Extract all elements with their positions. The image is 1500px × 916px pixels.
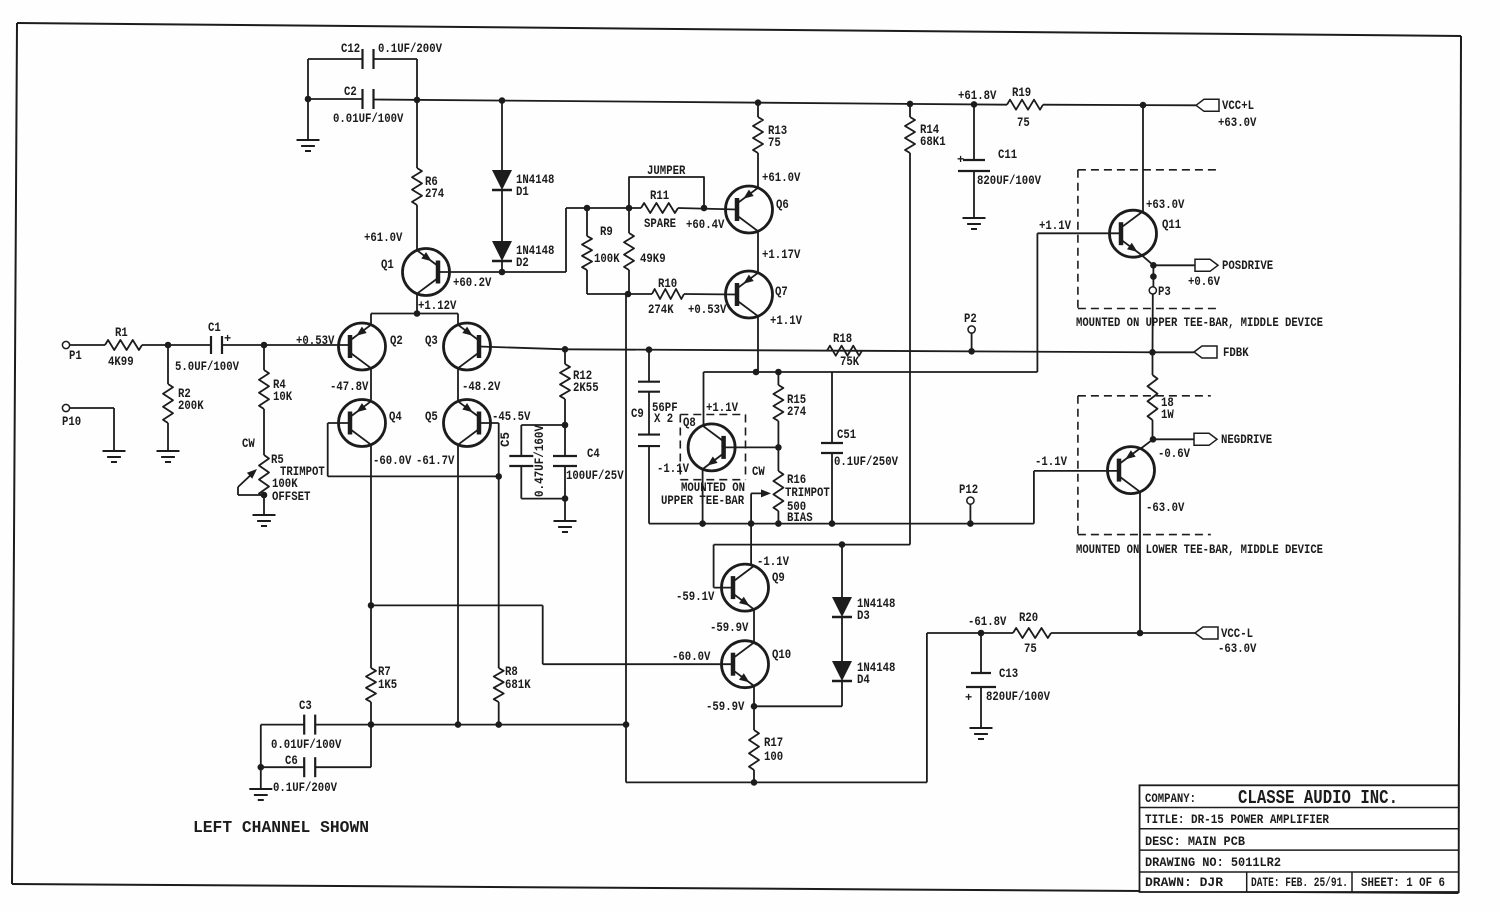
- svg-text:0.1UF/250V: 0.1UF/250V: [834, 455, 898, 469]
- dashed box lower: [1078, 396, 1211, 535]
- port P12: [959, 483, 978, 524]
- svg-text:CLASSE AUDIO INC.: CLASSE AUDIO INC.: [1238, 787, 1398, 809]
- svg-text:75: 75: [768, 136, 781, 150]
- wire lower collector: [1137, 492, 1144, 637]
- wire Q3 base to fdbk: [479, 347, 565, 350]
- svg-text:R19: R19: [1012, 86, 1031, 100]
- svg-text:-0.6V: -0.6V: [1158, 447, 1190, 461]
- svg-text:200K: 200K: [178, 399, 204, 413]
- svg-text:DRAWING NO: 5011LR2: DRAWING NO: 5011LR2: [1145, 856, 1281, 870]
- text mounted lower: [1076, 543, 1323, 557]
- svg-text:-59.1V: -59.1V: [676, 590, 715, 604]
- svg-text:Q1: Q1: [381, 258, 394, 272]
- wire D2 bottom: [501, 262, 503, 272]
- wire C5 bottom: [521, 495, 568, 502]
- svg-text:0.01UF/100V: 0.01UF/100V: [271, 738, 342, 752]
- wire bottom step: [625, 294, 627, 782]
- svg-text:CW: CW: [242, 437, 255, 451]
- svg-text:-60.0V: -60.0V: [373, 454, 412, 468]
- svg-text:+: +: [224, 332, 231, 346]
- svg-text:Q10: Q10: [772, 648, 791, 662]
- svg-text:P2: P2: [964, 312, 977, 326]
- svg-text:C3: C3: [299, 699, 312, 713]
- wire top rail: [374, 97, 1007, 108]
- capacitor C51: [821, 372, 898, 524]
- svg-text:-45.5V: -45.5V: [492, 410, 531, 424]
- svg-text:TRIMPOT: TRIMPOT: [785, 486, 830, 500]
- capacitor C2: [333, 85, 404, 126]
- wire C12 right: [374, 59, 417, 100]
- svg-text:C51: C51: [837, 428, 856, 442]
- wire D4 bottom: [754, 681, 842, 706]
- svg-text:R18: R18: [833, 332, 852, 346]
- wire C12 left: [308, 59, 362, 99]
- transistor Q7: [726, 271, 788, 318]
- resistor R7: [366, 605, 397, 724]
- svg-text:Q7: Q7: [775, 285, 788, 299]
- svg-text:274: 274: [425, 187, 445, 201]
- capacitor C4: [553, 425, 624, 499]
- svg-text:75K: 75K: [840, 355, 860, 369]
- title title: [1145, 813, 1329, 827]
- port VCC-L: [1195, 627, 1257, 656]
- wire C2 right to rail: [0, 0, 1, 1]
- wire D1-D2: [501, 191, 503, 241]
- svg-text:-48.2V: -48.2V: [462, 380, 501, 394]
- svg-text:DRAWN: DJR: DRAWN: DJR: [1145, 876, 1224, 890]
- transistor Q1: [381, 249, 450, 296]
- diode D3: [832, 597, 895, 623]
- svg-text:P1: P1: [69, 349, 82, 363]
- svg-text:P10: P10: [62, 415, 81, 429]
- svg-text:UPPER TEE-BAR: UPPER TEE-BAR: [661, 494, 745, 508]
- svg-text:-61.7V: -61.7V: [416, 454, 455, 468]
- svg-text:+63.0V: +63.0V: [1146, 198, 1185, 212]
- port P10: [62, 404, 81, 429]
- wire R10 to Q7: [684, 293, 737, 296]
- wire Q9 collector: [751, 524, 789, 569]
- svg-text:MOUNTED ON: MOUNTED ON: [681, 481, 745, 495]
- ground C4: [554, 499, 577, 532]
- title sheet: [1361, 876, 1445, 890]
- svg-text:+61.0V: +61.0V: [762, 171, 801, 185]
- wire R13 to Q6: [758, 153, 801, 188]
- svg-text:49K9: 49K9: [640, 252, 666, 266]
- capacitor C3: [271, 699, 342, 752]
- wire P1 to R1: [70, 344, 105, 346]
- wire R9 ends: [587, 208, 631, 297]
- svg-text:68K1: 68K1: [920, 135, 946, 149]
- wire C2 left: [305, 96, 362, 103]
- wire -1.1V node: [649, 520, 1034, 527]
- svg-text:+1.1V: +1.1V: [1039, 219, 1071, 233]
- svg-text:NEGDRIVE: NEGDRIVE: [1221, 433, 1272, 447]
- svg-text:Q8: Q8: [683, 416, 696, 430]
- wire Q2 collector: [330, 368, 371, 400]
- svg-text:274: 274: [787, 405, 807, 419]
- svg-text:+0.53V: +0.53V: [296, 334, 335, 348]
- wire emitters join: [371, 313, 458, 315]
- text mounted upper: [1076, 316, 1323, 330]
- svg-text:-59.9V: -59.9V: [710, 621, 749, 635]
- svg-text:P3: P3: [1158, 285, 1171, 299]
- capacitor C1: [175, 321, 239, 374]
- svg-text:-60.0V: -60.0V: [672, 650, 711, 664]
- svg-text:-1.1V: -1.1V: [657, 462, 689, 476]
- wire R1 to C1: [142, 342, 212, 349]
- svg-text:820UF/100V: 820UF/100V: [977, 174, 1041, 188]
- wire Q4 base: [328, 423, 499, 476]
- capacitor C9 upper: [638, 350, 660, 392]
- resistor R12: [560, 349, 599, 425]
- capacitor C12: [341, 42, 442, 69]
- svg-text:OFFSET: OFFSET: [272, 490, 311, 504]
- transistor Q10: [722, 641, 792, 688]
- svg-text:R7: R7: [378, 665, 391, 679]
- diode D4: [832, 661, 895, 687]
- wire Q11 emitter ext: [1142, 255, 1157, 268]
- svg-text:MOUNTED ON LOWER TEE-BAR, MIDD: MOUNTED ON LOWER TEE-BAR, MIDDLE DEVICE: [1076, 543, 1323, 557]
- wire Q8 emitter: [657, 462, 703, 524]
- resistor R10: [628, 277, 727, 317]
- wire R11 to Q6: [678, 205, 737, 232]
- wire R19 to VCC+L: [1043, 102, 1196, 109]
- svg-text:D4: D4: [857, 673, 870, 687]
- port VCC+L: [1196, 99, 1257, 130]
- svg-text:D1: D1: [516, 185, 529, 199]
- wire D1 top: [501, 101, 503, 170]
- svg-text:SPARE: SPARE: [644, 217, 676, 231]
- wire R6 to Q1: [364, 205, 417, 250]
- svg-text:+60.4V: +60.4V: [686, 218, 725, 232]
- wire P3 to fdbk: [1152, 294, 1154, 352]
- wire posdrive: [1153, 264, 1195, 266]
- svg-text:-63.0V: -63.0V: [1146, 501, 1185, 515]
- trimpot R16: [752, 447, 830, 525]
- svg-text:+1.1V: +1.1V: [770, 314, 802, 328]
- svg-text:R11: R11: [650, 189, 669, 203]
- svg-text:FDBK: FDBK: [1223, 346, 1249, 360]
- svg-text:SHEET: 1 OF 6: SHEET: 1 OF 6: [1361, 876, 1445, 890]
- wire Q10 emitter: [706, 686, 757, 714]
- svg-text:+0.53V: +0.53V: [688, 303, 727, 317]
- wire Q1 collector: [414, 294, 457, 317]
- svg-text:5.0UF/100V: 5.0UF/100V: [175, 360, 239, 374]
- svg-text:C12: C12: [341, 42, 360, 56]
- svg-text:C11: C11: [998, 148, 1017, 162]
- transistor Q8: [683, 416, 735, 471]
- svg-text:+: +: [957, 153, 964, 167]
- svg-text:Q2: Q2: [390, 334, 403, 348]
- svg-text:C2: C2: [344, 85, 357, 99]
- wire Q11 collector: [1143, 105, 1185, 212]
- wire Q7 emitter: [758, 314, 802, 372]
- svg-text:C4: C4: [587, 447, 600, 461]
- wire Q4 collector: [368, 445, 455, 609]
- svg-text:DESC: MAIN PCB: DESC: MAIN PCB: [1145, 835, 1245, 849]
- svg-text:Q5: Q5: [425, 410, 438, 424]
- transistor Q2: [339, 323, 403, 370]
- capacitor C11 top plate: [0, 0, 1, 1]
- capacitor C6: [273, 754, 337, 795]
- svg-text:C9: C9: [631, 407, 644, 421]
- svg-text:4K99: 4K99: [108, 355, 134, 369]
- svg-text:100K: 100K: [272, 477, 298, 491]
- svg-text:R16: R16: [787, 473, 806, 487]
- ground C6: [249, 767, 272, 800]
- wire -61.8V riser: [927, 633, 981, 782]
- svg-text:DATE: FEB. 25/91.: DATE: FEB. 25/91.: [1251, 876, 1348, 890]
- transistor Q9: [676, 564, 785, 611]
- wire Q8 base: [724, 444, 782, 451]
- resistor 18 1W: [1148, 352, 1175, 439]
- title company: [1145, 787, 1398, 809]
- ground C2: [297, 99, 320, 151]
- resistor R15: [773, 372, 806, 447]
- wire Q3 emitter: [457, 314, 459, 325]
- wire Q5 base: [479, 423, 502, 480]
- svg-text:Q4: Q4: [389, 410, 402, 424]
- ground C11: [963, 171, 986, 229]
- capacitor C9 lower: [631, 392, 678, 446]
- svg-text:+: +: [965, 691, 972, 705]
- port P2: [964, 312, 977, 351]
- svg-text:274K: 274K: [648, 303, 674, 317]
- wire C9 bottom: [648, 446, 650, 524]
- ground C13: [970, 687, 993, 739]
- wire R12-C5-C4 top: [521, 422, 568, 429]
- resistor R9: [582, 225, 620, 270]
- resistor R14: [905, 104, 946, 153]
- trimpot R5 wiper: [238, 469, 267, 498]
- wire Q6-Q7: [758, 231, 801, 273]
- wire bottom rail left: [315, 721, 629, 728]
- svg-text:-1.1V: -1.1V: [1035, 455, 1067, 469]
- svg-text:681K: 681K: [505, 678, 531, 692]
- port POSDRIVE: [1188, 259, 1273, 289]
- wire negdrive junction: [1141, 436, 1194, 448]
- resistor 49K9: [624, 208, 666, 294]
- svg-text:Q3: Q3: [425, 334, 438, 348]
- text left channel shown: [193, 818, 369, 837]
- svg-text:R9: R9: [600, 225, 613, 239]
- trimpot R5: [242, 409, 325, 504]
- svg-text:100UF/25V: 100UF/25V: [566, 469, 624, 483]
- svg-text:+61.0V: +61.0V: [364, 231, 403, 245]
- transistor Q5: [425, 400, 531, 447]
- wire Q1 base to D2: [438, 269, 566, 290]
- transistor Q6: [726, 186, 789, 233]
- svg-text:P12: P12: [959, 483, 978, 497]
- svg-text:C6: C6: [285, 754, 298, 768]
- wire R14 down: [714, 153, 910, 548]
- ground R5: [253, 497, 276, 526]
- resistor R20: [981, 611, 1051, 656]
- ground R2: [157, 423, 180, 462]
- wire Q1 base riser: [566, 205, 641, 272]
- svg-text:75: 75: [1017, 116, 1030, 130]
- svg-text:820UF/100V: 820UF/100V: [986, 690, 1050, 704]
- transistor Q4: [339, 400, 403, 447]
- svg-text:0.01UF/100V: 0.01UF/100V: [333, 112, 404, 126]
- wire C3 left: [261, 725, 304, 768]
- wire P10: [70, 408, 114, 451]
- wire lower base riser: [1034, 455, 1120, 524]
- svg-text:R8: R8: [505, 665, 518, 679]
- resistor R13: [753, 103, 787, 153]
- wire R20 to VCC-L: [1051, 632, 1195, 634]
- svg-text:X 2: X 2: [654, 412, 673, 426]
- svg-text:-63.0V: -63.0V: [1218, 642, 1257, 656]
- trimpot R16 wiper: [751, 489, 771, 523]
- title drawn: [1145, 876, 1224, 890]
- svg-text:1W: 1W: [1161, 408, 1174, 422]
- jumper: [629, 164, 704, 208]
- dashed box Q8: [680, 415, 745, 480]
- svg-text:C5: C5: [499, 432, 513, 447]
- svg-text:D2: D2: [516, 256, 529, 270]
- title block frame: [1140, 785, 1459, 892]
- resistor R6: [412, 100, 445, 205]
- svg-text:MOUNTED ON UPPER TEE-BAR, MIDD: MOUNTED ON UPPER TEE-BAR, MIDDLE DEVICE: [1076, 316, 1323, 330]
- svg-text:C1: C1: [208, 321, 221, 335]
- resistor R2: [163, 345, 204, 423]
- svg-text:-59.9V: -59.9V: [706, 700, 745, 714]
- resistor R1: [105, 326, 142, 369]
- resistor R4: [259, 345, 293, 409]
- wire Q3 collector: [458, 368, 501, 400]
- transistor Q11: [1110, 210, 1182, 257]
- svg-text:R10: R10: [658, 277, 677, 291]
- node +61.8V: [958, 89, 997, 103]
- svg-text:-61.8V: -61.8V: [968, 615, 1007, 629]
- svg-text:+0.6V: +0.6V: [1188, 275, 1220, 289]
- svg-text:JUMPER: JUMPER: [647, 164, 686, 178]
- svg-text:+63.0V: +63.0V: [1218, 116, 1257, 130]
- svg-text:2K55: 2K55: [573, 381, 599, 395]
- resistor R17: [749, 706, 783, 782]
- capacitor C5: [499, 425, 547, 499]
- wire Q10 base: [371, 605, 733, 664]
- svg-text:+1.12V: +1.12V: [418, 299, 457, 313]
- wire Q2 emitter: [370, 314, 372, 325]
- resistor R11: [641, 189, 678, 231]
- wire C6 right: [316, 725, 371, 768]
- svg-text:0.47UF/160V: 0.47UF/160V: [533, 425, 547, 497]
- svg-text:100K: 100K: [594, 252, 620, 266]
- svg-text:R1: R1: [115, 326, 128, 340]
- wire Q11 base: [1037, 219, 1120, 233]
- title desc: [1145, 835, 1245, 849]
- wire C1 to Q2 base: [222, 334, 350, 348]
- wire Q9 base riser: [714, 545, 733, 588]
- svg-text:CW: CW: [752, 465, 765, 479]
- svg-text:D3: D3: [857, 609, 870, 623]
- resistor R8: [494, 665, 531, 725]
- port NEGDRIVE: [1158, 433, 1272, 461]
- ground P10: [103, 451, 126, 462]
- svg-text:100: 100: [764, 750, 783, 764]
- text mounted upper tee-bar: [661, 481, 745, 508]
- svg-text:-1.1V: -1.1V: [757, 555, 789, 569]
- svg-text:10K: 10K: [273, 390, 293, 404]
- title date: [1251, 876, 1348, 890]
- svg-text:0.1UF/200V: 0.1UF/200V: [378, 42, 442, 56]
- wire fdbk line: [562, 346, 1194, 356]
- port P1: [62, 341, 81, 363]
- wire bottom rail right: [626, 779, 927, 786]
- wire +1.1V node: [704, 233, 1038, 375]
- svg-text:LEFT CHANNEL SHOWN: LEFT CHANNEL SHOWN: [193, 818, 369, 837]
- node -61.8V: [968, 615, 1007, 636]
- svg-text:+61.8V: +61.8V: [958, 89, 997, 103]
- port FDBK: [1194, 346, 1249, 360]
- wire Q8 collector: [704, 372, 739, 425]
- transistor Q3: [425, 323, 491, 370]
- svg-text:R20: R20: [1019, 611, 1038, 625]
- diode D1: [492, 170, 554, 199]
- svg-text:VCC-L: VCC-L: [1221, 627, 1253, 641]
- svg-text:Q9: Q9: [772, 571, 785, 585]
- svg-text:Q11: Q11: [1162, 218, 1181, 232]
- port P3: [1149, 265, 1171, 299]
- wire R8 top: [498, 476, 500, 668]
- diode D2: [492, 241, 554, 270]
- svg-text:1K5: 1K5: [378, 678, 397, 692]
- capacitor C13: [965, 633, 1050, 705]
- wire Q9-Q10: [710, 609, 754, 643]
- svg-text:0.1UF/200V: 0.1UF/200V: [273, 781, 337, 795]
- resistor R19: [1007, 86, 1043, 130]
- svg-text:VCC+L: VCC+L: [1222, 99, 1254, 113]
- svg-text:C13: C13: [999, 667, 1018, 681]
- svg-text:Q6: Q6: [776, 198, 789, 212]
- svg-text:COMPANY:: COMPANY:: [1145, 792, 1196, 806]
- wire D3-D4: [841, 617, 843, 661]
- transistor Q12 lower output: [1108, 447, 1185, 515]
- svg-text:TITLE: DR-15 POWER AMPLIFIER: TITLE: DR-15 POWER AMPLIFIER: [1145, 813, 1329, 827]
- svg-text:75: 75: [1024, 642, 1037, 656]
- svg-text:+1.17V: +1.17V: [762, 248, 801, 262]
- svg-text:POSDRIVE: POSDRIVE: [1222, 259, 1273, 273]
- wire D3 top: [841, 545, 843, 597]
- wire C6 left: [258, 764, 304, 771]
- svg-text:+60.2V: +60.2V: [453, 276, 492, 290]
- capacitor C11: [957, 104, 1041, 188]
- dashed box Q11: [1078, 170, 1220, 309]
- wire Q5 collector: [457, 445, 459, 725]
- resistor R18: [827, 332, 862, 369]
- svg-text:R17: R17: [764, 736, 783, 750]
- title drawing no: [1145, 856, 1281, 870]
- svg-text:+1.1V: +1.1V: [706, 401, 738, 415]
- svg-text:-47.8V: -47.8V: [330, 380, 369, 394]
